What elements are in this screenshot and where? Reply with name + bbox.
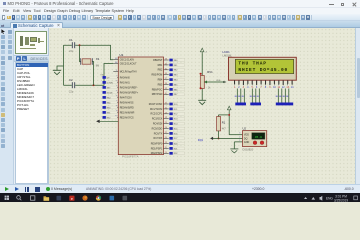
pin RB0/INT (33) right — [153, 59, 169, 62]
pin RC0/T1OSO (15) right — [148, 103, 168, 106]
node RE1 label left — [102, 111, 117, 114]
ground (oscillator) — [52, 70, 60, 74]
pin RA2/AN2/VREF- (4) left — [113, 86, 137, 90]
node RC4/SDI label right — [169, 122, 184, 125]
svg-text:RB0: RB0 — [173, 60, 177, 62]
svg-text:RC5/SDO: RC5/SDO — [151, 127, 162, 130]
node SET label left — [102, 86, 117, 89]
node RA4 label left — [102, 96, 117, 99]
svg-text:MODE: MODE — [106, 92, 112, 94]
wire top OSC1 net — [63, 45, 113, 60]
svg-text:RC6/TX: RC6/TX — [153, 132, 162, 135]
node RB3/PGM label right — [169, 73, 184, 76]
node RC6/TX label right — [169, 132, 184, 135]
pin VDD LCD — [238, 80, 240, 89]
wire RV1 bottom — [201, 89, 203, 101]
wire LCD pin net — [249, 89, 252, 103]
wire LCD pin net — [275, 89, 278, 103]
pin D4 LCD — [277, 80, 280, 89]
pin RA1/AN1 (3) left — [113, 81, 130, 85]
pin OSC1/CLKIN (13) left — [113, 58, 134, 62]
LCD LCD1 labels — [222, 50, 232, 58]
node UP label left — [102, 76, 117, 79]
pin RB5 (38) right — [157, 83, 168, 86]
node RD0/PSP0 label right — [169, 142, 184, 145]
pin E LCD — [255, 80, 257, 89]
wire LCD pin net — [253, 89, 256, 103]
svg-text:RB7: RB7 — [173, 94, 177, 96]
pin RC4/SDI (23) right — [152, 122, 168, 125]
svg-text:RB1: RB1 — [173, 65, 177, 67]
svg-text:RE0: RE0 — [106, 107, 110, 109]
pin RC5/SDO (24) right — [151, 127, 168, 130]
crystal X1 — [79, 45, 99, 85]
svg-text:RA5/AN4/SS: RA5/AN4/SS — [119, 101, 133, 104]
pin RE1/AN6/WR (9) left — [113, 111, 134, 115]
pin RD2/PSP2 (21) right — [150, 152, 168, 155]
svg-text:RB2: RB2 — [157, 69, 162, 72]
svg-text:RB4: RB4 — [173, 79, 177, 81]
svg-text:e: e — [71, 197, 73, 201]
pin VSS LCD — [233, 80, 235, 89]
LCD LCD1 body — [228, 57, 296, 80]
junction dot RV1 bottom — [199, 87, 201, 89]
svg-text:VDD: VDD — [243, 134, 248, 137]
transistor U2 sensor DS18B20 — [239, 127, 266, 152]
pin RB3/PGM (36) right — [151, 73, 168, 76]
pin RE2/AN7/CS (10) left — [113, 116, 134, 120]
svg-text:MCLR/Vpp/THV: MCLR/Vpp/THV — [119, 70, 137, 73]
svg-text:RE1/AN6/WR: RE1/AN6/WR — [119, 111, 134, 114]
junction dot (top net / crystal) — [78, 44, 80, 46]
node RE2 label left — [102, 116, 117, 119]
svg-text:RB5: RB5 — [173, 84, 177, 86]
svg-text:RC3: RC3 — [173, 119, 177, 121]
wire LCD pin net — [234, 89, 237, 103]
svg-text:RA5: RA5 — [106, 101, 110, 104]
wire VDD net — [229, 134, 242, 136]
wire GND net — [234, 142, 242, 149]
svg-text:RD0/PSP0: RD0/PSP0 — [150, 142, 162, 145]
menu bar — [0, 8, 360, 14]
svg-text:RE2: RE2 — [106, 117, 110, 119]
svg-text:RC0: RC0 — [173, 104, 177, 106]
wire LCD pin net — [241, 89, 244, 103]
pin D1 LCD — [264, 80, 266, 89]
svg-text:RC3/SCK: RC3/SCK — [151, 118, 162, 121]
wire ground stub — [57, 66, 64, 70]
pin RC7/RX (26) right — [153, 137, 168, 140]
svg-text:U2: U2 — [242, 127, 246, 131]
pin MCLR/Vpp/THV (1) left — [113, 70, 137, 74]
svg-text:3: 3 — [239, 133, 240, 135]
node RD1/PSP1 label right — [169, 147, 184, 150]
pin D2 LCD — [269, 80, 271, 89]
svg-text:DQ1: DQ1 — [197, 139, 203, 142]
capacitor C1 — [69, 38, 75, 53]
svg-text:1: 1 — [239, 140, 240, 142]
svg-text:C1: C1 — [69, 38, 73, 42]
node RC5/SDO label right — [169, 127, 184, 130]
pin D6 LCD — [286, 80, 289, 89]
pin D7 LCD — [290, 80, 293, 89]
svg-text:RB1: RB1 — [157, 64, 162, 67]
pin RA4/T0CKI (6) left — [113, 96, 132, 100]
node RS/RW/E bus label — [250, 103, 261, 106]
svg-text:RB3/PGM: RB3/PGM — [151, 74, 162, 77]
svg-text:PIC16F877A: PIC16F877A — [122, 155, 139, 159]
svg-text:RA0/AN0: RA0/AN0 — [119, 76, 130, 79]
svg-text:8M: 8M — [95, 65, 98, 68]
svg-text:RB7/PGD: RB7/PGD — [151, 93, 162, 96]
svg-text:RC7: RC7 — [173, 138, 177, 140]
wire LCD pin net — [256, 89, 259, 103]
pin RC2/CCP1 (17) right — [150, 112, 168, 115]
svg-text:VEE: VEE — [216, 80, 221, 82]
svg-text:22p: 22p — [69, 89, 74, 93]
pin VEE LCD — [242, 80, 244, 89]
node RA5 label left — [102, 101, 117, 104]
svg-text:U1: U1 — [119, 53, 123, 57]
pin RB1 (34) right — [157, 63, 168, 66]
svg-text:3/25/2019: 3/25/2019 — [334, 198, 348, 202]
node RC7/RX label right — [169, 137, 184, 140]
svg-text:RD1/PSP1: RD1/PSP1 — [150, 147, 162, 150]
taskbar — [0, 193, 360, 203]
svg-text:RB6: RB6 — [173, 89, 177, 91]
node RE0 label left — [102, 106, 117, 109]
svg-text:RD2: RD2 — [173, 153, 177, 155]
power +5V terminal (RV1) — [200, 48, 208, 53]
svg-text:45.0: 45.0 — [254, 136, 261, 139]
svg-text:RC4: RC4 — [173, 123, 177, 125]
svg-text:22p: 22p — [69, 49, 74, 53]
svg-text:RA1/AN1: RA1/AN1 — [119, 81, 130, 84]
node RB7/PGD label right — [169, 93, 184, 96]
pin RA5/AN4/SS (7) left — [113, 101, 134, 105]
svg-text:RB3: RB3 — [173, 75, 177, 77]
pin RB2 (35) right — [157, 68, 168, 71]
main area — [0, 28, 360, 184]
svg-text:RE0/AN5/RD: RE0/AN5/RD — [119, 106, 133, 109]
svg-text:NHIET DO=45.00: NHIET DO=45.00 — [238, 67, 288, 73]
junction dot RV1 top — [199, 73, 201, 75]
svg-text:RC4/SDI: RC4/SDI — [152, 123, 162, 126]
svg-text:RC1: RC1 — [173, 109, 177, 111]
svg-text:RA3/AN3/VREF+: RA3/AN3/VREF+ — [119, 91, 138, 94]
svg-text:4k7: 4k7 — [221, 128, 226, 131]
pin RC1/T1OSI (16) right — [149, 107, 168, 110]
svg-text:RB2: RB2 — [173, 70, 177, 72]
pin RB6/PGC (39) right — [151, 88, 168, 91]
svg-text:RC2: RC2 — [173, 114, 177, 116]
svg-text:RD2/PSP2: RD2/PSP2 — [150, 152, 162, 155]
pin RB7/PGD (40) right — [151, 93, 168, 96]
wire bottom OSC2 net — [63, 64, 113, 86]
pin D0 LCD — [260, 80, 262, 89]
svg-text:RE2/AN7/CS: RE2/AN7/CS — [119, 116, 133, 119]
pin RC3/SCK (18) right — [151, 117, 168, 120]
pin OSC2/CLKOUT (14) left — [113, 62, 137, 66]
svg-text:RC2/CCP1: RC2/CCP1 — [150, 113, 162, 116]
svg-text:ENG: ENG — [326, 196, 333, 200]
junction dot R1/DQ — [217, 137, 219, 139]
LCD display — [235, 59, 293, 73]
svg-text:OSC1/CLKIN: OSC1/CLKIN — [119, 59, 133, 62]
svg-text:OSC2/CLKOUT: OSC2/CLKOUT — [119, 63, 136, 66]
svg-text:X1: X1 — [95, 57, 99, 61]
wire LCD pin net — [282, 89, 285, 103]
node MODE label left — [102, 91, 117, 94]
node RB6/PGC label right — [169, 88, 184, 91]
capacitor C2 — [69, 78, 75, 93]
wire +5V vertical — [228, 112, 230, 134]
pin RC6/TX (25) right — [153, 132, 168, 135]
svg-text:RC6: RC6 — [173, 133, 177, 135]
svg-text:R1: R1 — [221, 120, 225, 124]
status bar — [0, 184, 360, 193]
node DQ terminal — [197, 137, 212, 142]
pin D3 LCD — [273, 80, 276, 89]
svg-text:GND: GND — [243, 141, 249, 144]
node RC1/T1OSI label right — [169, 108, 184, 111]
pin RD0/PSP0 (19) right — [150, 142, 168, 145]
svg-text:RA2/AN2/VREF-: RA2/AN2/VREF- — [119, 86, 137, 89]
potentiometer RV1 — [200, 70, 226, 89]
svg-text:DOWN: DOWN — [106, 82, 113, 84]
wire LCD pin net — [286, 89, 289, 103]
node DOWN label left — [102, 81, 117, 84]
node RC2/CCP1 label right — [169, 112, 184, 115]
wire LCD pin net — [238, 89, 241, 103]
svg-text:RD1: RD1 — [173, 148, 177, 150]
pin RA0/AN0 (2) left — [113, 76, 130, 80]
node RB4 label right — [169, 78, 184, 81]
svg-text:RE1: RE1 — [106, 112, 110, 114]
node RB1 label right — [169, 64, 184, 67]
svg-text:RC1/T1OSI: RC1/T1OSI — [149, 108, 162, 111]
ground (RV1) — [198, 100, 206, 104]
node MCLR terminal arrow — [96, 120, 118, 123]
pin RS LCD — [247, 80, 249, 89]
resistor R1 — [216, 115, 226, 138]
node RD2/PSP2 label right — [169, 152, 184, 155]
pin RD1/PSP1 (20) right — [150, 147, 168, 150]
node RC3/SCK label right — [169, 117, 184, 120]
svg-text:DQ: DQ — [243, 137, 247, 140]
toolbar — [0, 14, 360, 21]
node D4-D7 bus label — [275, 103, 292, 106]
svg-text:C2: C2 — [69, 78, 73, 82]
junction dot R1/+5V — [228, 114, 230, 116]
svg-text:RA4/T0CKI: RA4/T0CKI — [119, 96, 131, 99]
svg-text:RD0: RD0 — [173, 143, 177, 145]
wire DQ net — [212, 137, 242, 139]
pin RB4 (37) right — [157, 78, 168, 81]
wire left vertical C1/C2 net — [62, 45, 64, 85]
svg-text:RB6/PGC: RB6/PGC — [151, 88, 162, 91]
pin RE0/AN5/RD (8) left — [113, 106, 134, 110]
pin RW LCD — [251, 80, 253, 89]
title bar — [0, 0, 360, 8]
node RB5 label right — [169, 83, 184, 86]
node RB0/INT label right — [169, 59, 184, 62]
svg-text:RB4: RB4 — [157, 79, 162, 82]
svg-text:RC0/T1OSO: RC0/T1OSO — [148, 103, 162, 106]
svg-text:RC7/RX: RC7/RX — [153, 137, 162, 140]
svg-text:RA4: RA4 — [106, 96, 110, 99]
svg-text:RB0/INT: RB0/INT — [153, 59, 163, 62]
pin D5 LCD — [281, 80, 284, 89]
junction dot (bottom net / crystal) — [92, 84, 94, 86]
svg-text:DS18B20: DS18B20 — [242, 148, 253, 151]
svg-text:2: 2 — [239, 136, 240, 138]
tab bar — [0, 21, 360, 28]
svg-text:RC5: RC5 — [173, 128, 177, 130]
node RC0/T1OSO label right — [169, 103, 184, 106]
svg-text:THU THAP: THU THAP — [238, 60, 266, 66]
wire R1 top — [218, 114, 229, 116]
svg-text:RB5: RB5 — [157, 83, 162, 86]
node VSS/VDD/VEE bus label — [235, 103, 246, 106]
svg-text:RV1: RV1 — [207, 70, 213, 74]
ground (sensor) — [230, 149, 238, 153]
op-amp U1 microcontroller PIC16F877A body — [118, 53, 163, 159]
wire RV1 top — [201, 54, 203, 76]
power +5V terminal (sensor) — [227, 106, 231, 112]
pin RA3/AN3/VREF+ (5) left — [113, 91, 138, 95]
node RB2 label right — [169, 68, 184, 71]
wire LCD pin net — [279, 89, 282, 103]
svg-text:LCD1: LCD1 — [222, 50, 230, 54]
